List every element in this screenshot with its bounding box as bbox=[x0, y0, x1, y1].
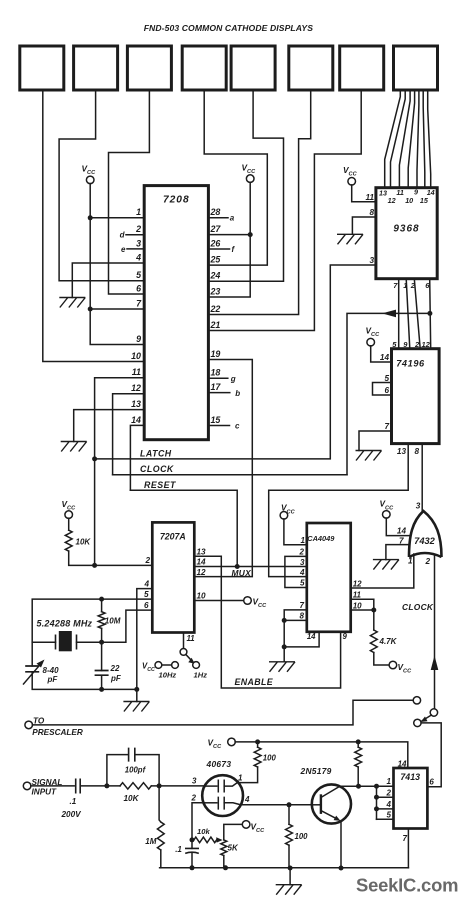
svg-text:1M: 1M bbox=[145, 837, 156, 846]
svg-text:13: 13 bbox=[131, 399, 141, 409]
svg-text:a: a bbox=[230, 214, 235, 223]
svg-text:17: 17 bbox=[211, 382, 222, 392]
svg-text:1: 1 bbox=[301, 536, 306, 545]
svg-text:6: 6 bbox=[429, 778, 434, 787]
svg-text:4.7K: 4.7K bbox=[379, 637, 398, 646]
svg-text:.1: .1 bbox=[70, 797, 77, 806]
svg-text:10: 10 bbox=[405, 196, 413, 205]
svg-text:12: 12 bbox=[353, 579, 362, 588]
svg-text:28: 28 bbox=[210, 207, 221, 217]
svg-text:13: 13 bbox=[397, 447, 407, 456]
svg-text:12: 12 bbox=[197, 568, 207, 577]
svg-text:12: 12 bbox=[131, 383, 141, 393]
svg-text:4: 4 bbox=[299, 568, 305, 577]
svg-text:11: 11 bbox=[353, 591, 362, 600]
svg-text:100: 100 bbox=[295, 832, 309, 841]
svg-text:INPUT: INPUT bbox=[32, 788, 58, 797]
svg-text:13: 13 bbox=[379, 188, 387, 197]
svg-text:10M: 10M bbox=[105, 616, 121, 625]
svg-text:3: 3 bbox=[300, 558, 305, 567]
svg-text:3: 3 bbox=[369, 256, 374, 265]
svg-text:10: 10 bbox=[131, 351, 141, 361]
svg-text:11: 11 bbox=[396, 188, 403, 197]
svg-text:5.24288 MHz: 5.24288 MHz bbox=[37, 619, 93, 629]
svg-text:14: 14 bbox=[398, 759, 407, 768]
svg-text:23: 23 bbox=[210, 286, 221, 296]
svg-text:8-40: 8-40 bbox=[43, 666, 60, 675]
svg-text:3: 3 bbox=[136, 238, 141, 248]
svg-text:CLOCK: CLOCK bbox=[140, 464, 174, 474]
svg-text:2: 2 bbox=[414, 340, 420, 349]
svg-text:1: 1 bbox=[408, 557, 413, 566]
svg-text:5: 5 bbox=[387, 811, 392, 820]
svg-text:13: 13 bbox=[197, 547, 207, 556]
svg-text:25: 25 bbox=[210, 255, 222, 265]
svg-text:15: 15 bbox=[211, 415, 222, 425]
svg-text:LATCH: LATCH bbox=[140, 449, 172, 459]
svg-text:5K: 5K bbox=[228, 844, 239, 853]
svg-text:8: 8 bbox=[300, 612, 305, 621]
svg-text:14: 14 bbox=[380, 353, 390, 362]
svg-text:14: 14 bbox=[131, 415, 141, 425]
svg-text:22: 22 bbox=[110, 664, 120, 673]
svg-text:2: 2 bbox=[144, 556, 150, 565]
svg-text:pF: pF bbox=[110, 674, 122, 683]
svg-text:200V: 200V bbox=[61, 810, 83, 819]
svg-text:1: 1 bbox=[387, 777, 392, 786]
svg-text:12: 12 bbox=[388, 196, 396, 205]
svg-text:CLOCK: CLOCK bbox=[402, 602, 434, 612]
svg-text:11: 11 bbox=[132, 367, 141, 377]
svg-text:PRESCALER: PRESCALER bbox=[32, 728, 83, 737]
svg-text:4: 4 bbox=[386, 800, 392, 809]
svg-text:MUX: MUX bbox=[232, 568, 252, 578]
svg-text:27: 27 bbox=[210, 224, 222, 234]
svg-text:b: b bbox=[235, 389, 240, 398]
svg-text:100: 100 bbox=[263, 754, 277, 763]
svg-text:3: 3 bbox=[416, 502, 421, 511]
svg-text:pF: pF bbox=[47, 675, 59, 684]
svg-text:SeekIC.com: SeekIC.com bbox=[356, 875, 458, 896]
svg-text:22: 22 bbox=[210, 304, 221, 314]
svg-text:1Hz: 1Hz bbox=[194, 670, 208, 679]
svg-text:4: 4 bbox=[143, 580, 149, 589]
svg-text:FND-503 COMMON CATHODE DISPLAY: FND-503 COMMON CATHODE DISPLAYS bbox=[144, 23, 314, 33]
svg-text:RESET: RESET bbox=[144, 480, 176, 490]
svg-text:14: 14 bbox=[197, 558, 207, 567]
svg-text:10Hz: 10Hz bbox=[159, 670, 177, 679]
svg-text:5: 5 bbox=[300, 579, 305, 588]
svg-text:2: 2 bbox=[386, 788, 392, 797]
svg-text:e: e bbox=[121, 245, 126, 254]
svg-text:7208: 7208 bbox=[163, 195, 190, 206]
svg-text:4: 4 bbox=[244, 795, 250, 804]
svg-text:7432: 7432 bbox=[414, 536, 436, 546]
svg-text:10K: 10K bbox=[124, 794, 140, 803]
svg-text:.1: .1 bbox=[175, 845, 182, 854]
svg-text:100pf: 100pf bbox=[125, 766, 147, 775]
svg-text:6: 6 bbox=[384, 386, 389, 395]
svg-text:2: 2 bbox=[425, 557, 431, 566]
svg-text:2N5179: 2N5179 bbox=[300, 766, 332, 776]
svg-text:1: 1 bbox=[136, 207, 141, 217]
svg-text:3: 3 bbox=[192, 776, 197, 785]
svg-text:7: 7 bbox=[403, 834, 408, 843]
svg-text:7: 7 bbox=[300, 601, 305, 610]
svg-text:19: 19 bbox=[211, 349, 221, 359]
svg-text:CA4049: CA4049 bbox=[307, 534, 335, 543]
svg-text:2: 2 bbox=[135, 224, 141, 234]
svg-text:26: 26 bbox=[210, 238, 221, 248]
svg-text:g: g bbox=[230, 374, 236, 383]
svg-text:40673: 40673 bbox=[206, 759, 232, 769]
svg-text:9: 9 bbox=[136, 334, 141, 344]
svg-text:7: 7 bbox=[384, 422, 389, 431]
svg-text:2: 2 bbox=[299, 548, 305, 557]
svg-text:10k: 10k bbox=[197, 827, 210, 836]
svg-text:7207A: 7207A bbox=[160, 532, 186, 542]
svg-text:11: 11 bbox=[366, 193, 375, 202]
svg-text:8: 8 bbox=[369, 208, 374, 217]
svg-text:ENABLE: ENABLE bbox=[235, 677, 274, 687]
svg-text:5: 5 bbox=[384, 374, 389, 383]
svg-text:21: 21 bbox=[210, 320, 221, 330]
svg-text:5: 5 bbox=[144, 590, 149, 599]
svg-text:10: 10 bbox=[197, 592, 207, 601]
svg-text:6: 6 bbox=[144, 601, 149, 610]
svg-text:18: 18 bbox=[211, 368, 221, 378]
svg-text:10K: 10K bbox=[76, 538, 92, 547]
svg-text:1: 1 bbox=[238, 773, 243, 782]
svg-text:11: 11 bbox=[187, 634, 195, 643]
svg-text:14: 14 bbox=[397, 527, 407, 536]
svg-text:2: 2 bbox=[191, 794, 197, 803]
svg-text:8: 8 bbox=[415, 447, 420, 456]
svg-text:9: 9 bbox=[414, 188, 418, 197]
svg-text:14: 14 bbox=[307, 632, 316, 641]
svg-text:10: 10 bbox=[353, 601, 362, 610]
svg-text:7413: 7413 bbox=[400, 772, 420, 782]
svg-text:9368: 9368 bbox=[393, 224, 419, 235]
svg-text:24: 24 bbox=[210, 271, 221, 281]
svg-text:15: 15 bbox=[420, 196, 429, 205]
svg-text:12: 12 bbox=[422, 340, 431, 349]
svg-text:9: 9 bbox=[343, 632, 348, 641]
svg-text:c: c bbox=[235, 422, 240, 431]
svg-text:74196: 74196 bbox=[396, 358, 425, 368]
svg-text:6: 6 bbox=[136, 283, 141, 293]
svg-text:4: 4 bbox=[135, 252, 141, 262]
